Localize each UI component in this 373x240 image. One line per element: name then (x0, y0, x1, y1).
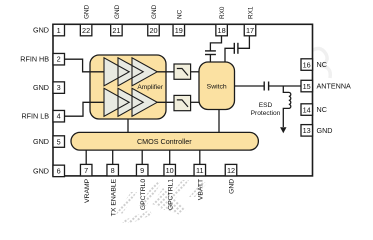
pin 15 (301, 80, 313, 92)
svg-text:VBATT: VBATT (198, 179, 205, 200)
svg-text:Amplifier: Amplifier (137, 84, 163, 91)
wire capacitor C2 to switch top (225, 48, 234, 63)
svg-text:GPCTRL1: GPCTRL1 (167, 179, 174, 211)
svg-text:9: 9 (140, 166, 144, 175)
wire controller to GPCTRL1 pin10 (169, 150, 171, 165)
pin 13 (301, 125, 313, 137)
pin 8 (107, 164, 119, 176)
svg-text:8: 8 (111, 166, 115, 175)
svg-text:5: 5 (57, 137, 61, 146)
svg-text:RFIN LB: RFIN LB (21, 112, 49, 121)
pin 14 (301, 104, 313, 116)
svg-text:GND: GND (114, 4, 121, 19)
svg-text:RFIN HB: RFIN HB (20, 55, 49, 64)
svg-text:16: 16 (303, 60, 311, 69)
svg-text:GND: GND (33, 137, 49, 146)
capacitor C2 (RX1) (234, 43, 238, 54)
CMOS controller U3 (71, 132, 258, 150)
pin 9 (136, 164, 148, 176)
package outline (53, 24, 313, 176)
svg-text:14: 14 (303, 105, 311, 114)
svg-text:18: 18 (218, 26, 226, 35)
wire controller to VBATT pin11 (199, 150, 201, 165)
svg-text:GND: GND (84, 4, 91, 19)
pin 20 (148, 24, 160, 36)
amplifier U1 (90, 55, 166, 119)
watermark bottom-center (116, 180, 208, 226)
wire switch to antenna capacitor (235, 85, 265, 87)
svg-text:12: 12 (227, 166, 235, 175)
wire capacitor C1 to switch top (209, 55, 211, 64)
svg-text:NC: NC (176, 9, 183, 19)
pin 21 (111, 24, 123, 36)
wire RFIN HB pin2 to amplifier (65, 59, 105, 72)
svg-text:GND: GND (33, 83, 49, 92)
pin 17 (244, 24, 256, 36)
svg-text:GPCTRL0: GPCTRL0 (140, 179, 147, 211)
wire amplifier to CMOS controller (127, 119, 129, 132)
pin 6 (53, 165, 65, 177)
pin 2 (53, 53, 65, 64)
wire controller to GPCTRL0 pin9 (141, 150, 143, 165)
pin 3 (53, 82, 65, 94)
pin 16 (301, 59, 313, 71)
svg-text:22: 22 (82, 26, 90, 35)
switch U2 (199, 62, 235, 110)
wire RX0 pin18 to capacitor to switch (210, 36, 221, 51)
pin 22 (80, 24, 92, 36)
svg-text:2: 2 (57, 55, 61, 64)
svg-text:7: 7 (84, 166, 88, 175)
svg-text:NC: NC (317, 105, 327, 114)
wire controller to VRAMP pin7 (85, 150, 87, 165)
wire amplifier out LB to filter (157, 101, 174, 103)
svg-text:GND: GND (33, 26, 49, 35)
wire filter F1 to switch (191, 71, 199, 73)
wire capacitor C3 to ANTENNA pin15 (269, 85, 301, 87)
svg-text:NC: NC (317, 60, 327, 69)
pin 7 (80, 164, 92, 176)
svg-text:6: 6 (57, 166, 61, 175)
svg-text:RX1: RX1 (248, 6, 255, 19)
svg-text:15: 15 (303, 82, 311, 91)
svg-text:20: 20 (149, 26, 157, 35)
wire switch to CMOS controller (218, 110, 220, 133)
svg-text:GND: GND (229, 179, 236, 194)
svg-text:RX0: RX0 (219, 6, 226, 19)
pin 5 (53, 136, 65, 148)
filter F1 (HB low-pass) (174, 64, 191, 79)
svg-text:19: 19 (175, 26, 183, 35)
svg-text:CMOS Controller: CMOS Controller (137, 137, 192, 146)
pin 18 (216, 24, 228, 36)
pin 19 (173, 24, 185, 36)
svg-text:ESD: ESD (259, 102, 273, 109)
svg-text:4: 4 (57, 112, 61, 121)
svg-text:GND: GND (317, 126, 333, 135)
pin 1 (53, 24, 65, 36)
svg-text:13: 13 (303, 126, 311, 135)
svg-text:Switch: Switch (207, 83, 227, 90)
svg-text:10: 10 (166, 166, 174, 175)
pin 12 (225, 164, 237, 176)
ESD Protection label (251, 102, 281, 117)
watermark top-right (310, 48, 330, 78)
wire filter F2 to switch (191, 101, 199, 103)
svg-text:GND: GND (33, 166, 49, 175)
svg-text:11: 11 (196, 166, 204, 175)
wire controller to TX ENABLE pin8 (112, 150, 114, 165)
svg-text:GND: GND (151, 4, 158, 19)
svg-text:TX ENABLE: TX ENABLE (110, 178, 117, 216)
svg-text:ANTENNA: ANTENNA (317, 82, 352, 91)
wire RX1 pin17 to capacitor (238, 36, 249, 49)
ground arrow (ESD to ground) (280, 127, 286, 133)
pin 11 (194, 164, 206, 176)
capacitor C3 (antenna ESD) (264, 82, 268, 91)
svg-text:17: 17 (246, 26, 254, 35)
svg-text:3: 3 (57, 83, 61, 92)
filter F2 (LB low-pass) (174, 95, 191, 110)
pin 10 (164, 164, 176, 176)
svg-text:1: 1 (57, 26, 61, 35)
wire RFIN LB pin4 to amplifier (65, 102, 105, 116)
inductor L1 (ESD shunt) (283, 86, 291, 127)
wire amplifier out HB to filter (157, 71, 174, 73)
svg-text:VRAMP: VRAMP (84, 178, 91, 203)
capacitor C1 (RX0) (205, 51, 216, 55)
pin 4 (53, 110, 65, 122)
svg-text:21: 21 (112, 26, 120, 35)
svg-text:Protection: Protection (251, 110, 281, 117)
